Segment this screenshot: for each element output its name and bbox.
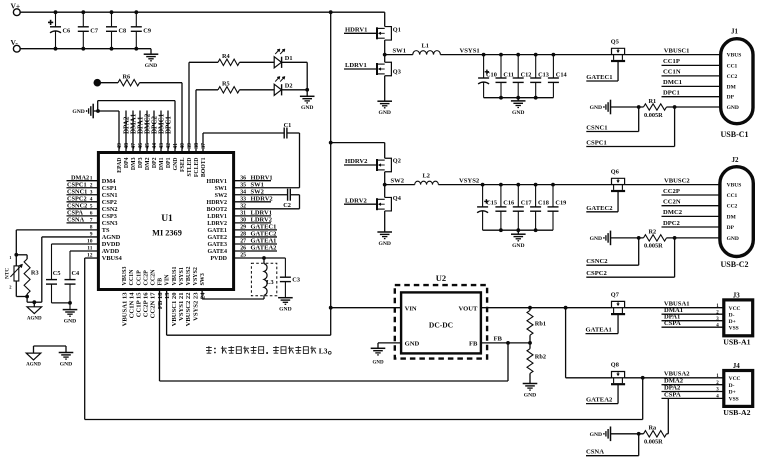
wire VBUSC1 <box>625 54 721 56</box>
wire VIN pin19 riser <box>166 290 168 336</box>
svg-text:Q2: Q2 <box>393 158 401 165</box>
svg-text:6: 6 <box>90 211 93 217</box>
svg-text:L3: L3 <box>266 279 273 286</box>
svg-text:SW2: SW2 <box>391 177 405 184</box>
svg-text:DP2: DP2 <box>152 157 158 168</box>
wire CC2N <box>662 205 720 207</box>
svg-text:R6: R6 <box>123 73 131 80</box>
svg-text:R4: R4 <box>222 53 231 60</box>
svg-text:J2: J2 <box>732 156 740 164</box>
svg-text:GND: GND <box>512 110 524 116</box>
svg-text:4: 4 <box>90 196 93 202</box>
svg-text:0.005R: 0.005R <box>644 243 663 250</box>
wire R6 to pin40 FSET <box>140 82 183 84</box>
svg-text:AGND: AGND <box>102 234 121 241</box>
svg-text:CC2P: CC2P <box>143 270 149 286</box>
svg-text:CSPC2: CSPC2 <box>586 270 607 277</box>
resistor R3 <box>26 255 28 259</box>
inductor L3 <box>251 263 276 296</box>
ground Rb2 GND <box>523 383 538 385</box>
svg-text:GATEA2: GATEA2 <box>586 397 613 404</box>
svg-text:Ra: Ra <box>649 425 658 432</box>
svg-text:C8: C8 <box>119 28 127 35</box>
wire C15-C19 ground bus <box>483 229 553 231</box>
wire D1 cathode <box>282 61 308 63</box>
svg-text:GND: GND <box>60 361 72 367</box>
node V- input terminal <box>13 45 20 52</box>
svg-text:LDRV2: LDRV2 <box>345 197 367 204</box>
svg-text:CC1P 15: CC1P 15 <box>136 292 143 317</box>
svg-text:CC1P: CC1P <box>663 58 680 65</box>
ground U2 GND <box>378 342 401 344</box>
connector J4 USB-A2 <box>724 371 753 407</box>
svg-text:VBUS: VBUS <box>727 53 742 59</box>
svg-text:GATE3: GATE3 <box>207 242 227 248</box>
wire V+ branch to Q2 <box>330 12 332 308</box>
ground GND top-left rotated <box>92 104 94 119</box>
svg-text:VSYS1: VSYS1 <box>460 47 480 54</box>
svg-text:V-: V- <box>11 38 19 47</box>
wire VSYS2 rail <box>438 184 611 186</box>
svg-text:CSN3: CSN3 <box>102 220 118 227</box>
capacitor C7 <box>82 12 84 27</box>
wire VBUS4 pin12 long net <box>85 257 99 259</box>
svg-text:GATE1: GATE1 <box>207 228 227 234</box>
svg-text:J3: J3 <box>733 291 741 299</box>
wire C1 to SW1 <box>299 133 301 188</box>
svg-text:C9: C9 <box>143 28 151 35</box>
wire SW3 pin24 to L3 <box>201 290 203 300</box>
svg-text:L1: L1 <box>422 42 429 49</box>
resistor Ra 0.005R <box>610 427 612 442</box>
svg-text:CC1: CC1 <box>727 193 738 199</box>
IC U1 M12369 <box>98 153 233 290</box>
svg-text:C7: C7 <box>90 28 98 35</box>
svg-text:7: 7 <box>90 218 93 224</box>
svg-text:R5: R5 <box>222 81 230 88</box>
capacitor C13 <box>535 55 537 78</box>
svg-text:V+: V+ <box>11 2 21 11</box>
transistor Q5 <box>612 54 625 56</box>
transistor Q8 <box>612 377 625 379</box>
svg-text:41: 41 <box>173 143 179 149</box>
capacitor C2 <box>234 194 288 196</box>
svg-text:GND: GND <box>72 109 84 115</box>
capacitor C14 <box>552 55 554 78</box>
svg-text:CC1N: CC1N <box>663 69 681 76</box>
svg-text:GND: GND <box>512 243 524 249</box>
svg-text:CC2N 17: CC2N 17 <box>150 292 157 319</box>
wire R4 to D1 <box>240 61 275 63</box>
svg-text:GND: GND <box>301 105 313 111</box>
svg-text:EPAD: EPAD <box>117 158 123 173</box>
svg-text:CC1: CC1 <box>727 63 738 69</box>
U1 left pins 1-7 stubs and net labels <box>67 180 99 182</box>
svg-text:Q3: Q3 <box>393 69 401 76</box>
wire CC1P <box>662 64 721 66</box>
transistor Q4 <box>384 185 386 198</box>
svg-text:CSPA: CSPA <box>664 391 681 398</box>
wire Q2 source to SW2 <box>384 172 386 185</box>
svg-text:44: 44 <box>152 143 158 149</box>
svg-text:SW2: SW2 <box>215 193 227 199</box>
svg-text:VBUSC1: VBUSC1 <box>664 47 690 54</box>
svg-text:CSNC2: CSNC2 <box>67 203 87 210</box>
svg-text:DMA2: DMA2 <box>71 174 89 181</box>
svg-text:HDRV2: HDRV2 <box>207 200 227 206</box>
capacitor C18 <box>535 185 537 207</box>
svg-text:CSPA: CSPA <box>664 320 681 327</box>
wire V+ to Q1 drain <box>384 12 386 26</box>
ground C4 GND <box>63 309 78 311</box>
svg-text:AGND: AGND <box>27 316 42 321</box>
svg-text:VCC: VCC <box>729 376 741 382</box>
svg-text:GND: GND <box>524 392 536 398</box>
svg-text:DPC1: DPC1 <box>663 90 680 97</box>
wire AGND pin9 <box>42 236 99 238</box>
svg-text:CSPC2: CSPC2 <box>67 195 87 202</box>
svg-text:CSN1: CSN1 <box>102 192 118 199</box>
connector J2 USB-C2 <box>720 167 753 257</box>
svg-text:GND: GND <box>590 432 602 438</box>
wire D2 cathode <box>282 89 308 91</box>
svg-text:C13: C13 <box>538 71 549 78</box>
svg-text:GND: GND <box>64 319 76 325</box>
svg-text:43: 43 <box>159 143 165 149</box>
svg-text:0.005R: 0.005R <box>644 112 663 119</box>
svg-text:D+: D+ <box>729 319 736 325</box>
svg-text:AVDD: AVDD <box>102 248 120 255</box>
svg-text:GATEA1: GATEA1 <box>586 327 612 334</box>
transistor Q1 <box>385 27 392 41</box>
svg-text:CC2: CC2 <box>727 204 738 210</box>
resistor R4 <box>188 62 190 152</box>
svg-text:FB: FB <box>494 336 503 343</box>
wire GATEA1 <box>617 315 619 334</box>
svg-text:CC2P: CC2P <box>663 188 680 195</box>
svg-text:DPC2: DPC2 <box>663 220 681 227</box>
ground V- GND <box>144 53 159 55</box>
svg-text:AGND: AGND <box>26 363 41 368</box>
svg-text:1: 1 <box>90 175 93 181</box>
svg-text:HDRV2: HDRV2 <box>345 158 368 165</box>
svg-text:LDRV1: LDRV1 <box>345 62 367 69</box>
svg-text:CSNA: CSNA <box>586 449 604 456</box>
svg-text:VIN: VIN <box>405 305 417 312</box>
svg-text:Q1: Q1 <box>393 27 401 34</box>
wire GATEC2 <box>617 192 619 212</box>
capacitor C3 <box>284 258 286 277</box>
svg-text:DP: DP <box>727 95 735 101</box>
node V+ input terminal <box>13 9 20 16</box>
svg-text:CSNC1: CSNC1 <box>586 125 607 132</box>
svg-text:VBUSC2: VBUSC2 <box>664 177 690 184</box>
svg-text:CSP2: CSP2 <box>102 199 117 206</box>
svg-text:U2: U2 <box>436 273 446 283</box>
wire CSPA J3 <box>662 326 724 328</box>
wire VBUSC2 <box>625 184 720 186</box>
note text <box>206 346 212 354</box>
svg-text:CC1N 14: CC1N 14 <box>128 292 135 319</box>
svg-text:C14: C14 <box>556 71 568 78</box>
svg-text:GND: GND <box>279 307 291 313</box>
svg-text:VSYS1 21: VSYS1 21 <box>178 293 185 321</box>
svg-text:CSNA: CSNA <box>67 217 85 224</box>
svg-text:CC2N: CC2N <box>151 269 157 286</box>
wire VBUSA2 <box>625 377 724 379</box>
svg-text:USB-A1: USB-A1 <box>723 338 750 347</box>
IC U2 DC-DC <box>395 285 487 359</box>
svg-text:C1: C1 <box>284 122 292 129</box>
capacitor C11 <box>500 55 502 78</box>
svg-text:FB: FB <box>469 341 478 348</box>
svg-text:BOOT2: BOOT2 <box>207 207 227 213</box>
capacitor C5 <box>52 243 99 245</box>
LED D2 <box>274 84 281 95</box>
resistor R5 <box>195 90 197 153</box>
svg-text:24: 24 <box>199 292 206 299</box>
svg-text:DMC2: DMC2 <box>663 209 683 216</box>
svg-text:C2: C2 <box>283 202 291 209</box>
wire GATEC1 <box>617 62 619 82</box>
svg-text:37: 37 <box>201 143 207 149</box>
wire DPA2 <box>662 391 724 393</box>
wire PVDD pin25 <box>234 257 286 259</box>
svg-text:C12: C12 <box>521 71 532 78</box>
wire CSNC1 <box>638 107 640 132</box>
svg-text:19: 19 <box>164 292 171 299</box>
wire CSPA J4 <box>662 397 724 399</box>
svg-text:SW3: SW3 <box>200 273 206 285</box>
svg-text:GND: GND <box>372 361 384 366</box>
svg-text:MI 2369: MI 2369 <box>152 228 182 237</box>
capacitor C1 <box>202 133 204 153</box>
svg-text:DP: DP <box>727 225 735 231</box>
svg-text:VBUS3: VBUS3 <box>122 266 128 285</box>
svg-text:39: 39 <box>187 143 193 149</box>
capacitor C4 <box>70 250 98 252</box>
svg-text:VBUS2: VBUS2 <box>186 266 192 285</box>
svg-text:R1: R1 <box>649 98 657 105</box>
svg-text:HDRV1: HDRV1 <box>345 26 367 33</box>
svg-text:U1: U1 <box>161 214 173 224</box>
wire R3 bottom to AGND <box>16 296 27 298</box>
svg-text:CSPC1: CSPC1 <box>67 181 87 188</box>
capacitor C15 <box>482 185 484 207</box>
wire CSNA <box>638 434 640 456</box>
ground VSYS2 caps GND <box>517 230 519 234</box>
svg-text:DP3: DP3 <box>138 157 144 168</box>
svg-text:DM: DM <box>727 214 737 220</box>
svg-text:CC2: CC2 <box>727 74 738 80</box>
svg-text:VBUS: VBUS <box>727 183 742 189</box>
svg-text:Q7: Q7 <box>611 292 619 299</box>
ground Q3 source GND <box>384 76 386 101</box>
svg-text:DM3: DM3 <box>131 157 137 170</box>
svg-text:VBUSC2 22: VBUSC2 22 <box>185 292 192 327</box>
wire TS pin8 to NTC <box>16 229 98 231</box>
capacitor C8 <box>111 12 113 27</box>
svg-text:VSYS2: VSYS2 <box>459 177 480 184</box>
svg-text:TS: TS <box>102 227 110 234</box>
wire V- rail <box>20 48 151 50</box>
svg-text:VCC: VCC <box>729 306 741 312</box>
svg-text:2: 2 <box>90 182 93 188</box>
ground AGND symbol <box>33 302 35 307</box>
svg-text:GND: GND <box>590 105 602 111</box>
wire CC2P <box>662 194 720 196</box>
svg-text:47: 47 <box>131 143 137 149</box>
wire DPC2 <box>662 226 720 228</box>
svg-text:R3: R3 <box>31 270 39 277</box>
wire CSPC1 <box>674 107 676 147</box>
svg-text:VBUSA2: VBUSA2 <box>664 371 690 378</box>
inductor L2 <box>415 181 439 184</box>
svg-text:CC1P: CC1P <box>136 270 142 286</box>
resistor R6 <box>94 79 102 87</box>
wire CSPC2 <box>674 238 676 277</box>
svg-text:Q6: Q6 <box>611 168 619 175</box>
capacitor C17 <box>517 185 519 207</box>
svg-text:D2: D2 <box>285 83 293 90</box>
wire FB feedback to U1 pin18 <box>507 343 509 381</box>
svg-text:C6: C6 <box>63 28 71 35</box>
svg-text:CSPC1: CSPC1 <box>586 140 607 147</box>
svg-text:CSNC2: CSNC2 <box>586 258 608 265</box>
svg-text:CC2N: CC2N <box>663 199 681 206</box>
svg-text:USB-A2: USB-A2 <box>723 408 750 417</box>
wire VBUSA1 <box>625 307 724 309</box>
svg-text:CSNC1: CSNC1 <box>67 188 87 195</box>
svg-text:C11: C11 <box>503 71 514 78</box>
svg-text:GATEC1: GATEC1 <box>586 74 612 81</box>
svg-text:GND: GND <box>405 341 420 348</box>
svg-text:48: 48 <box>124 143 130 149</box>
transistor Q6 <box>612 184 625 186</box>
svg-text:Rb1: Rb1 <box>535 321 546 328</box>
svg-text:VSYS2 23: VSYS2 23 <box>192 292 199 321</box>
svg-text:C5: C5 <box>53 270 61 277</box>
transistor Q7 <box>612 307 625 309</box>
LED D1 <box>274 57 281 68</box>
connector J1 USB-C1 <box>721 39 753 124</box>
svg-text:SW1: SW1 <box>215 186 227 192</box>
svg-text:C16: C16 <box>503 200 514 207</box>
svg-text:GND: GND <box>727 236 739 242</box>
svg-text:GATEC2: GATEC2 <box>586 205 613 212</box>
svg-text:CSN2: CSN2 <box>102 206 118 213</box>
wire DMC2 <box>662 215 720 217</box>
connector J3 USB-A1 <box>724 300 753 336</box>
wire DPA1 <box>662 320 724 322</box>
svg-text:GND: GND <box>378 110 390 116</box>
wire C10-C14 ground bus <box>484 97 554 99</box>
svg-text:DP4: DP4 <box>124 157 130 168</box>
svg-text:DM2: DM2 <box>145 157 151 170</box>
svg-text:SW1: SW1 <box>393 47 407 54</box>
svg-text:46: 46 <box>138 143 144 149</box>
svg-text:BOOT1: BOOT1 <box>201 157 207 177</box>
svg-text:LDRV1: LDRV1 <box>207 214 227 220</box>
svg-text:FB: FB <box>158 278 164 286</box>
svg-text:LDRV2: LDRV2 <box>207 221 227 227</box>
svg-text:49: 49 <box>117 143 123 149</box>
transistor Q2 <box>385 158 392 172</box>
svg-text:DPC1: DPC1 <box>164 116 172 134</box>
wire GND tie to pins 49 and 41 <box>96 109 100 113</box>
svg-text:C18: C18 <box>538 200 549 207</box>
inductor L1 <box>413 51 441 55</box>
resistor Rb2 <box>529 343 531 349</box>
svg-text:VBUS4: VBUS4 <box>102 255 123 262</box>
svg-text:CSP3: CSP3 <box>102 213 117 220</box>
svg-text:CSPA: CSPA <box>67 210 83 217</box>
ground LED GND <box>306 90 308 97</box>
svg-text:VOUT: VOUT <box>458 305 478 312</box>
capacitor C12 <box>517 55 519 78</box>
svg-text:42: 42 <box>166 143 172 149</box>
svg-text:DM1: DM1 <box>159 157 165 170</box>
svg-text:NTC: NTC <box>5 268 11 279</box>
capacitor C6 <box>55 12 57 27</box>
resistor R1 0.005R <box>610 100 612 115</box>
ground C3 GND <box>278 297 293 299</box>
svg-text:VSYS1: VSYS1 <box>179 267 185 285</box>
svg-text:0.005R: 0.005R <box>644 439 663 446</box>
svg-text:40: 40 <box>180 143 186 149</box>
resistor Rb1 <box>529 308 531 311</box>
svg-text:R2: R2 <box>649 229 657 236</box>
svg-text:C19: C19 <box>555 200 566 207</box>
svg-text:D-: D- <box>729 383 735 389</box>
svg-text:DC-DC: DC-DC <box>429 321 453 330</box>
svg-text:FB 18: FB 18 <box>157 292 164 309</box>
wire GATEA2 <box>617 385 619 404</box>
svg-text:GATE4: GATE4 <box>207 249 227 255</box>
svg-text:VBUSC1 20: VBUSC1 20 <box>171 292 178 327</box>
wire Ra to CSPA <box>667 433 669 435</box>
wire FB row <box>481 342 530 344</box>
svg-text:USB-C2: USB-C2 <box>721 260 749 269</box>
wire R5 to D2 <box>240 89 275 91</box>
svg-text:Q5: Q5 <box>611 38 619 45</box>
svg-text:CC1N: CC1N <box>129 269 135 286</box>
wire CC1N <box>662 75 721 77</box>
svg-text:C4: C4 <box>72 270 81 277</box>
svg-text:USB-C1: USB-C1 <box>721 130 749 139</box>
thermistor NTC <box>14 266 19 281</box>
svg-text:CSP1: CSP1 <box>102 185 117 192</box>
svg-text:Q8: Q8 <box>611 362 619 369</box>
svg-text:VSYS2: VSYS2 <box>193 267 199 285</box>
svg-text:VSS: VSS <box>729 397 739 403</box>
svg-text:GND: GND <box>727 105 739 111</box>
svg-text:45: 45 <box>145 143 151 149</box>
capacitor C9 <box>135 12 137 27</box>
wire Q1 source to SW1 <box>384 40 386 55</box>
capacitor C16 <box>500 185 502 207</box>
svg-text:D+: D+ <box>729 390 736 396</box>
svg-text:GND: GND <box>145 63 157 69</box>
svg-text:VSS: VSS <box>729 325 739 331</box>
svg-text:FSEL: FSEL <box>180 157 186 172</box>
svg-text:DM4: DM4 <box>102 178 116 185</box>
wire DMC1 <box>662 85 721 87</box>
wire DPC1 <box>662 96 721 98</box>
ground Q4 source GND <box>384 211 386 232</box>
svg-text:DVDD: DVDD <box>102 241 121 248</box>
wire CSNC2 <box>638 238 640 265</box>
